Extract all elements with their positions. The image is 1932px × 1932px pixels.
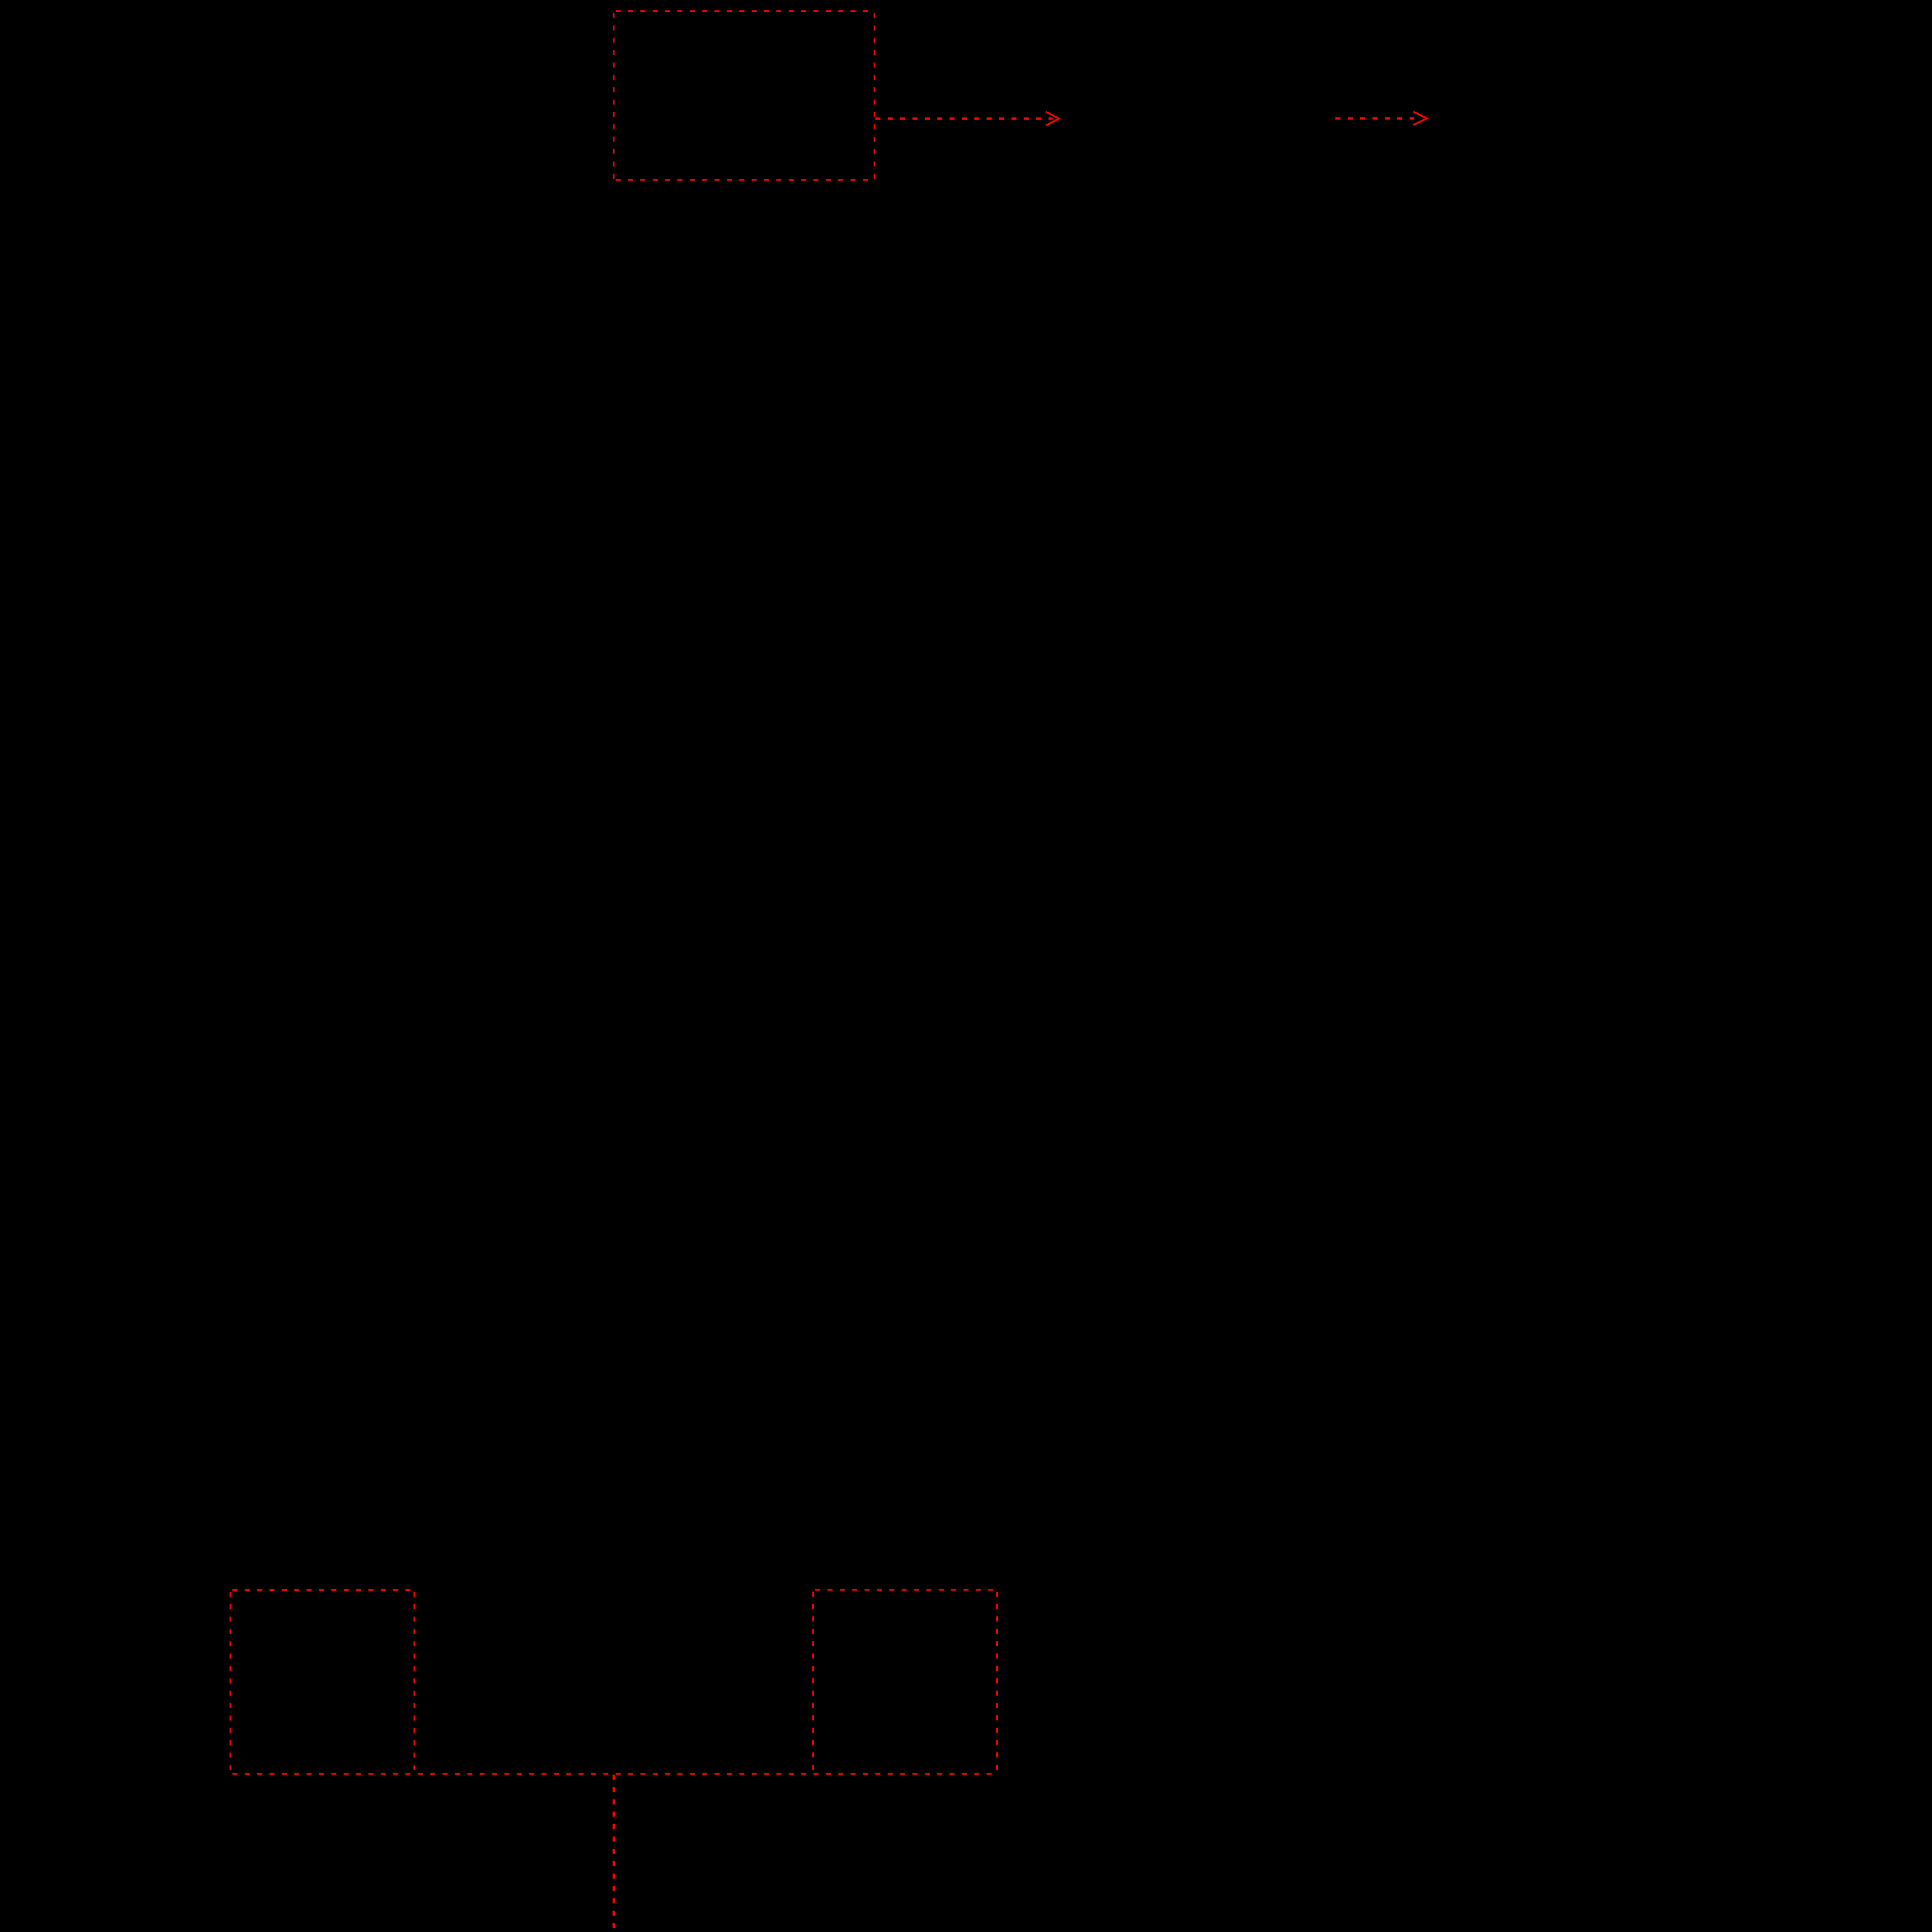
arrow 2 dashed shaft (top right) [1335,117,1414,119]
arrow 1 dashed shaft (from box 1 right edge) [876,117,1053,120]
annotation box 1 (top dashed rectangle) [614,11,874,180]
dashed baseline (bottom edges of box 2 and box 3 plus connector) [230,1773,997,1775]
vertical dashed arrow shaft (drops from baseline) [612,1775,615,1932]
arrow 2 head [1413,112,1427,125]
arrow 1 head [1046,112,1059,126]
annotation box 3 (bottom right dashed rectangle) [813,1590,997,1774]
annotation box 2 (bottom left dashed rectangle) [230,1590,414,1774]
